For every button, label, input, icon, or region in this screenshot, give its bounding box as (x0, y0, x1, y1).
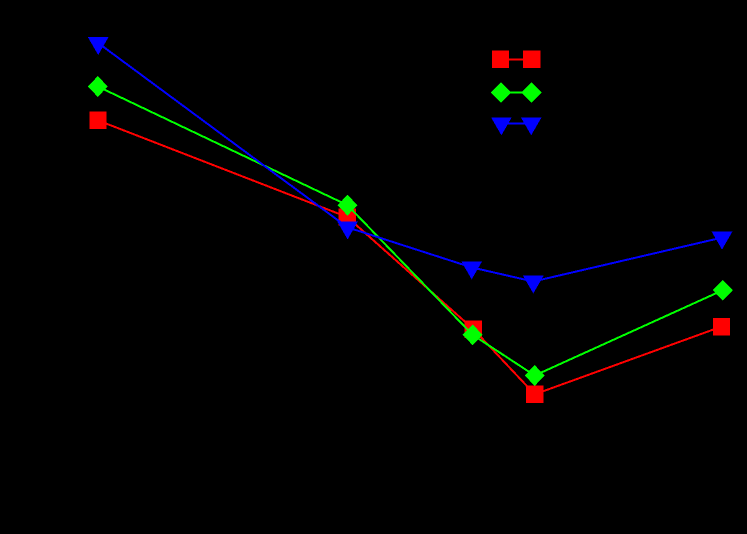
green marker point 4 (525, 365, 545, 386)
blue marker point 3 (461, 261, 482, 279)
red marker point 1 (89, 112, 106, 129)
legend red right marker (523, 51, 540, 68)
green marker point 1 (88, 76, 108, 97)
green marker point 2 (338, 195, 358, 216)
red series polyline (98, 120, 722, 394)
legend red sample line (501, 58, 532, 60)
green series polyline (98, 87, 723, 376)
legend blue left marker (491, 117, 512, 135)
blue marker point 1 (88, 37, 109, 55)
blue marker point 4 (523, 276, 544, 294)
green marker point 5 (713, 280, 733, 301)
blue marker point 2 (337, 221, 358, 239)
blue marker point 5 (712, 232, 733, 250)
legend green left marker (491, 82, 511, 103)
red marker point 4 (526, 386, 543, 403)
legend green right marker (522, 82, 542, 103)
legend green sample line (501, 92, 532, 94)
green marker point 3 (463, 324, 483, 345)
legend blue right marker (521, 117, 542, 135)
red marker point 5 (713, 318, 730, 335)
legend red left marker (492, 51, 509, 68)
legend blue sample line (501, 122, 531, 124)
red marker point 3 (465, 321, 482, 338)
red marker point 2 (338, 208, 355, 225)
blue series polyline (98, 43, 722, 282)
